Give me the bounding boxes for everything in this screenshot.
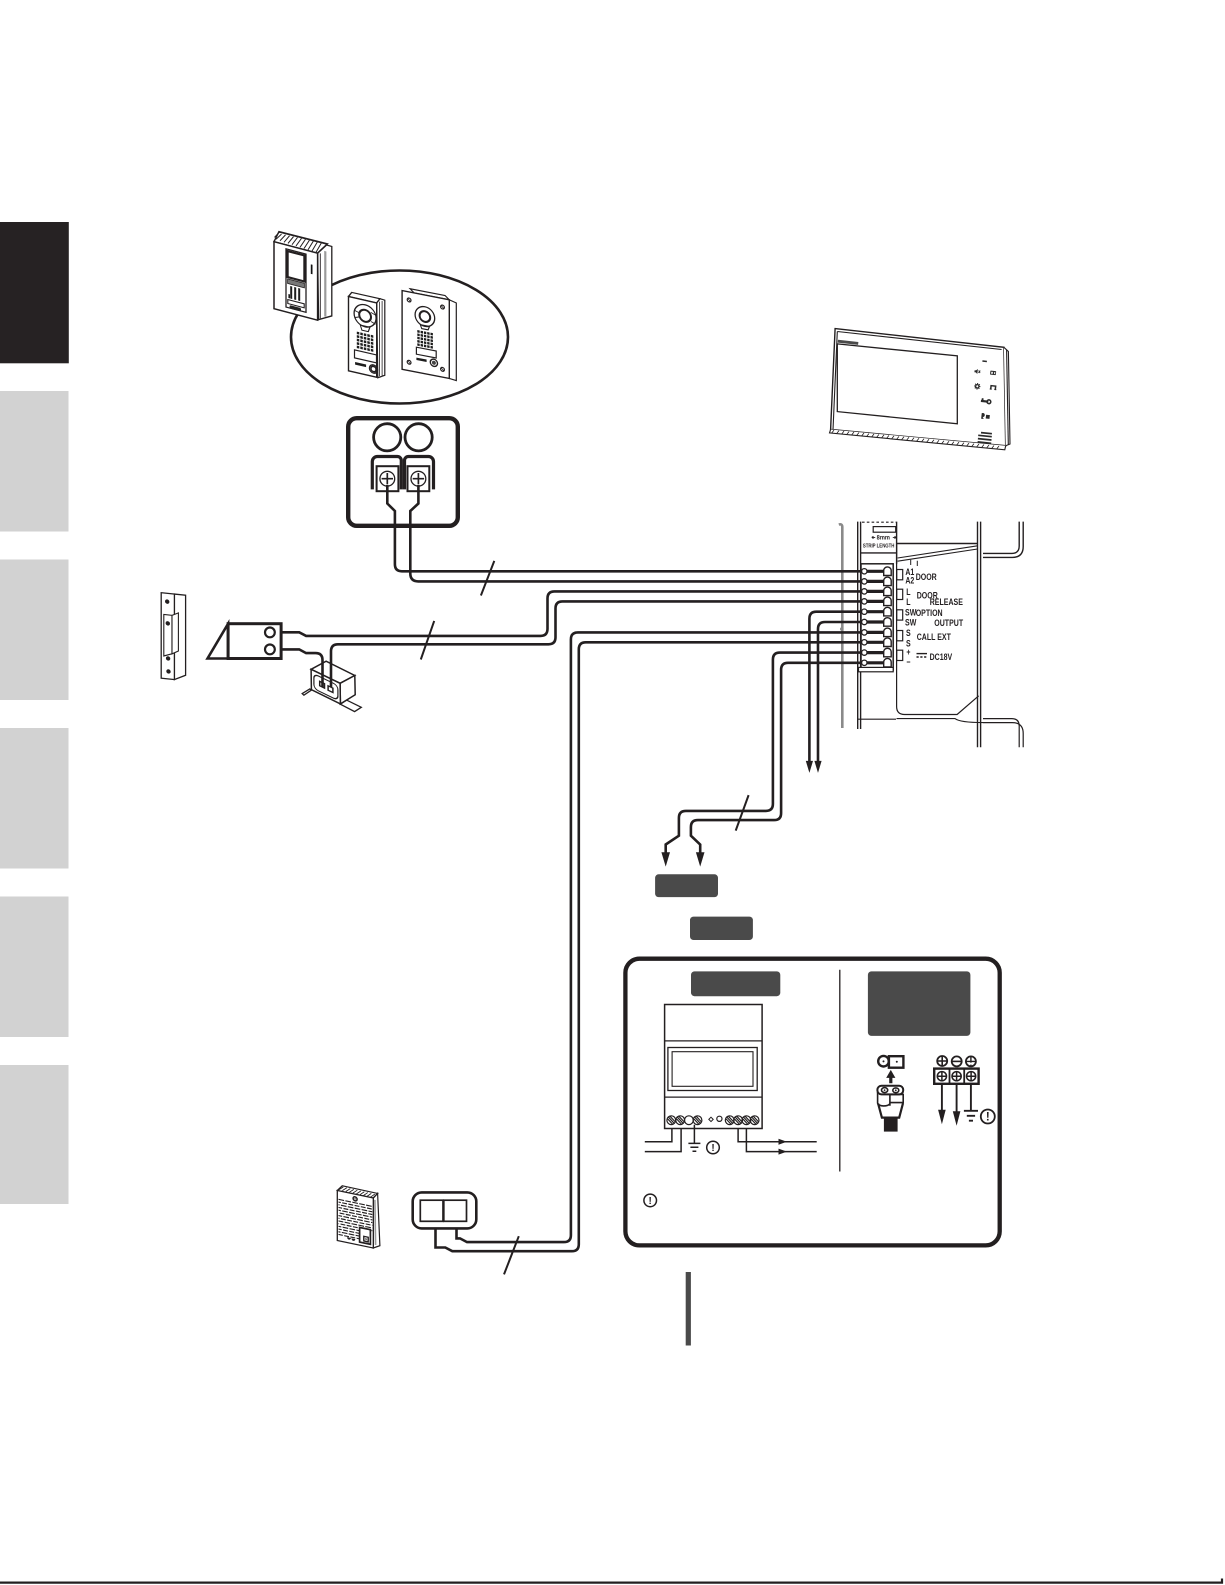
corner screws [407,298,411,303]
door release strike body [208,624,282,659]
wire DC + [666,653,862,853]
wire door station A1 [387,485,862,571]
svg-text:!: ! [649,1196,652,1207]
logo [838,340,859,345]
in-wall back box [449,300,456,381]
terminal right shell [405,457,434,490]
door release strike faceplate [161,593,185,681]
svg-text:SW: SW [905,618,917,628]
right face [340,676,355,704]
wire door station A2 [410,485,862,581]
arrow option 1 [806,761,813,773]
bracket right edge [978,522,981,748]
svg-text:!: ! [711,1143,714,1154]
LED slot [311,264,313,274]
wire L2 to transformer [331,601,862,687]
DC plug [877,1086,903,1132]
side thickness [1004,347,1010,445]
body front face [831,329,1006,446]
wire L1 to strike [275,591,862,636]
terminal strip body [861,564,893,670]
panel plate [897,543,978,545]
top bevel hatched [274,230,328,256]
ground right [964,1111,978,1121]
3-pole terminal block [934,1069,978,1084]
top-right mounting hook [983,522,1023,558]
DIN power supply unit [665,1005,763,1129]
svg-text:DC18V: DC18V [930,652,953,662]
cable marker door wires [481,561,494,596]
hanging cord [839,524,843,728]
model label right [868,971,971,1036]
wire DC - [691,663,862,853]
terminal labels [905,567,963,667]
call button [290,305,301,311]
left foot [302,689,311,695]
leads with arrows [942,1084,971,1112]
bracket left edge [858,522,861,729]
caution PSU [707,1141,720,1154]
left margin tab gray 3 [0,728,69,869]
contact upper [265,628,275,638]
slots [290,286,292,299]
speaker grille [417,330,433,349]
face plate [402,291,449,379]
wire S call ext 2 [436,642,863,1251]
camera window [288,251,305,281]
screw right [411,471,426,486]
arrow up [886,1070,895,1083]
icon talk [981,413,990,420]
svg-text:−: − [906,657,910,667]
terminal left plate [377,466,399,491]
screw left [380,471,395,486]
throat [360,325,370,332]
svg-text:CALL EXT: CALL EXT [917,632,951,642]
status dash [982,360,987,362]
caution bottom-left [644,1194,657,1207]
input terminals [667,1116,702,1125]
name plate [416,347,436,358]
bottom hatched rim [830,430,1006,450]
arrow DC + [661,852,670,866]
top bevel [349,292,381,304]
speaker slots [978,433,992,444]
footer rule [0,1579,1222,1583]
camera ring [415,305,435,328]
monitor mounting bracket (rear view) [839,522,1023,748]
AC transformer plug-in block [302,661,361,711]
svg-text:!: ! [986,1112,990,1124]
camera ring [354,302,376,329]
bottom-right mounting hook [983,719,1023,748]
cable marker release wires [421,621,434,660]
svg-text:STRIP LENGTH: STRIP LENGTH [863,543,895,550]
svg-text:RELEASE: RELEASE [930,597,964,607]
svg-text:SW: SW [905,608,917,618]
name plate [288,300,304,308]
throat [420,325,429,330]
name plate [355,350,377,363]
note bar [686,1272,691,1346]
icon gear [974,383,981,390]
grille band [288,279,305,288]
socket recess [314,674,338,700]
PS label box 1 [655,874,718,897]
wire SW option 1 [809,612,862,761]
inner rim top/left [833,332,1002,431]
door station terminal box [348,418,458,526]
screws above terminal [937,1056,976,1066]
svg-text:OUTPUT: OUTPUT [934,618,963,628]
call button [369,364,377,374]
terminal left shell [372,457,401,490]
inner panel [286,249,306,312]
terminals [347,1237,355,1241]
grille [339,1199,373,1241]
screen [837,344,957,424]
8mm arrows text [863,535,896,549]
hole left [374,424,401,451]
video door station JO-DV (isometric, top) [274,230,332,324]
svg-text:+: + [906,647,910,657]
left margin tab gray 4 [0,897,69,1038]
DC output wires [738,1129,817,1152]
divider [839,970,841,1172]
svg-text:S: S [906,628,911,638]
PS label box 2 [690,917,753,940]
model label left [691,971,780,996]
AC input wires [645,1129,681,1152]
front face [349,297,377,378]
model dash [355,362,366,367]
left margin tab gray 5 [0,1065,69,1204]
icon brightness [974,369,980,375]
top face [311,661,355,683]
front face [274,242,318,320]
cable marker DC pair [736,795,749,831]
terminal right plate [408,466,430,491]
wiring [275,485,862,1274]
wire S call ext 1 [457,632,863,1242]
top face hatched [337,1185,377,1199]
call button [430,358,437,367]
flush-mount door station (in ellipse, right) [402,287,456,380]
wire strike to transformer [275,649,323,687]
hole right [405,424,432,451]
right face [373,1193,380,1250]
bracket bottom lip [858,719,983,723]
indicator marks [709,1117,713,1121]
left margin tab black [0,222,69,363]
svg-text:DOOR: DOOR [916,572,937,582]
icon key [981,398,991,404]
arrow DC - [696,852,705,866]
surface-mount door station (in ellipse, left) [349,292,385,380]
arrow option 2 [814,761,821,773]
caution right [981,1110,995,1124]
terminal rows [862,567,903,667]
model label plate [360,1227,371,1244]
left margin tab gray 1 [0,391,69,532]
right foot [340,700,361,712]
icon door [990,386,997,390]
master monitor station JO-1MD (isometric) [830,329,1011,450]
power supply detail box [625,959,999,1246]
strip-length gauge box [861,522,897,564]
model dash [416,358,426,362]
output terminals [725,1116,759,1125]
side face [377,298,385,379]
svg-text:L: L [906,587,910,597]
ellipse grouping door stations [291,271,508,404]
wire SW option 2 [818,622,862,761]
group squares [897,570,903,580]
icon monitor [990,371,996,376]
side face [318,243,332,323]
svg-text:OPTION: OPTION [916,608,943,618]
svg-text:L: L [906,597,910,607]
left margin tab gray 2 [0,560,69,701]
front face [337,1191,373,1249]
speaker grille [357,332,374,352]
plug socket end view [878,1056,903,1068]
front face [311,669,340,704]
contact lower [265,645,275,655]
ground wire [688,1125,700,1152]
cable marker call ext [504,1236,519,1274]
screw [353,1196,357,1201]
svg-text:A2: A2 [905,576,914,586]
svg-text:8mm: 8mm [877,535,890,541]
extension speaker [337,1185,380,1250]
call ext connector [413,1192,477,1228]
